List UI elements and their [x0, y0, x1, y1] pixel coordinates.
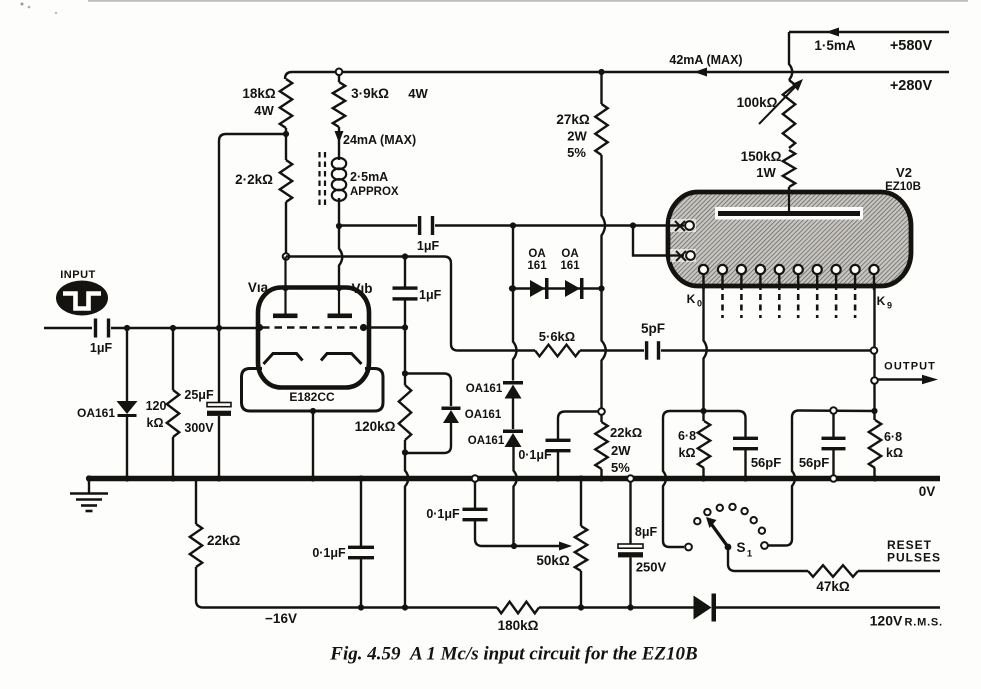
- wire bias to 0.1uF: [558, 412, 598, 441]
- guide electrode G2: [670, 249, 696, 262]
- wire between stack diodes: [512, 399, 514, 430]
- node 25uF branch: [216, 325, 222, 331]
- capacitor 56pF b: [832, 414, 834, 438]
- capacitor 1uF grid shunt: [404, 257, 406, 288]
- wire box cathode to 0V: [312, 411, 314, 478]
- wire cap to V2 guides (hops 27k line): [435, 224, 513, 226]
- svg-text:kΩ: kΩ: [147, 416, 164, 430]
- wire diode column upper (hops 5.6k row): [510, 285, 516, 291]
- resistor 50k potentiometer: [580, 479, 582, 527]
- node pair left: [509, 285, 515, 291]
- svg-text:22kΩ: 22kΩ: [207, 533, 241, 548]
- wire S1 to reset pulses: [728, 549, 808, 571]
- node 8uF bottom: [627, 604, 633, 610]
- svg-text:kΩ: kΩ: [886, 446, 903, 460]
- wire 120k2 to -16V line (hops rail): [405, 453, 408, 608]
- diode rectifier 120V: [694, 596, 712, 620]
- guide electrode G1: [670, 219, 696, 232]
- svg-text:250V: 250V: [636, 560, 667, 575]
- svg-text:1·5mA: 1·5mA: [814, 38, 856, 53]
- node diode branch: [124, 325, 130, 331]
- svg-text:OA161: OA161: [465, 409, 502, 421]
- wire wiper with arrow: [514, 545, 560, 547]
- wire 27k column lower to bias node (hops 5.6k row): [602, 289, 606, 409]
- capacitor 1uF input: [94, 319, 97, 338]
- capacitor 8uF electrolytic: [627, 475, 634, 482]
- tube V1 E182CC envelope: [258, 288, 369, 388]
- wire node to 1uF coupling cap: [339, 224, 417, 226]
- wire top +580V rail: [789, 31, 949, 33]
- svg-text:6·8: 6·8: [678, 429, 696, 443]
- diode OA161 input clamp: [126, 328, 128, 402]
- node 18k/2.2k junction: [283, 131, 289, 137]
- input pulse icon: [56, 281, 108, 316]
- wire 150k to V2 anode: [788, 187, 790, 194]
- svg-text:150kΩ: 150kΩ: [741, 149, 782, 164]
- wire feedback to grid line: [219, 134, 286, 328]
- svg-text:100kΩ: 100kΩ: [737, 95, 778, 110]
- arrow 24mA: [338, 127, 340, 142]
- svg-text:5·6kΩ: 5·6kΩ: [539, 329, 575, 344]
- node pair right: [598, 285, 604, 291]
- node box bottom: [310, 408, 316, 414]
- svg-text:56pF: 56pF: [751, 455, 781, 470]
- svg-text:0·1μF: 0·1μF: [518, 448, 552, 462]
- resistor 22k 2W: [600, 415, 602, 422]
- node 120k branch: [170, 325, 176, 331]
- svg-text:EZ10B: EZ10B: [885, 181, 921, 193]
- cathode V1a: [264, 354, 303, 365]
- rail junction dots: [124, 475, 130, 481]
- svg-text:Fig. 4.59 A 1 Mc/s input circ: Fig. 4.59 A 1 Mc/s input circuit for the…: [329, 644, 697, 665]
- svg-text:25μF: 25μF: [184, 388, 214, 402]
- cathode dashed leads: [723, 294, 856, 318]
- wire 22k to -16V line: [196, 567, 220, 608]
- capacitor 56pF a: [733, 437, 758, 440]
- node grid left: [256, 324, 263, 331]
- svg-text:56pF: 56pF: [799, 455, 829, 470]
- svg-text:0: 0: [697, 299, 702, 309]
- wire K9 lead: [873, 283, 875, 348]
- node wiper tee: [511, 543, 517, 549]
- svg-text:50kΩ: 50kΩ: [536, 553, 570, 568]
- resistor 18k: [280, 79, 292, 128]
- anode plate V1a: [284, 257, 286, 315]
- wire stack to rail (hops rail) continue to wiper: [514, 447, 517, 547]
- cathode pins K0-K9: [699, 265, 879, 290]
- switch S1 arm: [725, 544, 732, 551]
- wire K9 to node: [873, 384, 875, 412]
- svg-text:4W: 4W: [408, 86, 428, 101]
- capacitor 5pF: [645, 341, 648, 360]
- resistor 6.8k b: [873, 411, 875, 420]
- switch S1 contacts arc: [694, 518, 700, 524]
- wire +280V rail: [285, 72, 949, 79]
- svg-text:0·1μF: 0·1μF: [426, 507, 460, 521]
- svg-text:27kΩ: 27kΩ: [556, 112, 590, 127]
- capacitor 25uF electrolytic: [218, 328, 220, 403]
- ground symbol: [86, 475, 92, 481]
- svg-text:Vıa: Vıa: [248, 280, 269, 295]
- node 120k2 bottom: [402, 604, 408, 610]
- svg-text:1: 1: [747, 549, 753, 560]
- svg-text:120kΩ: 120kΩ: [355, 419, 396, 434]
- node branch return: [402, 449, 408, 455]
- wire 47k to edge: [858, 570, 940, 572]
- wire grid2 down: [404, 328, 406, 374]
- svg-text:S: S: [736, 540, 745, 555]
- svg-text:1μF: 1μF: [419, 288, 442, 302]
- svg-text:+280V: +280V: [890, 78, 933, 94]
- node 120k-2 top: [402, 370, 408, 376]
- svg-text:+580V: +580V: [890, 38, 933, 54]
- node grid right: [360, 324, 367, 331]
- svg-text:0·1μF: 0·1μF: [312, 546, 346, 560]
- svg-text:42mA (MAX): 42mA (MAX): [669, 53, 742, 67]
- wire 27k down to diode pair (hops 1uF wire): [602, 155, 606, 289]
- svg-text:4W: 4W: [254, 103, 274, 118]
- node 27k top: [598, 69, 604, 75]
- svg-text:8μF: 8μF: [635, 525, 658, 539]
- svg-text:2·5mA: 2·5mA: [350, 170, 388, 184]
- resistor 5.6k: [535, 345, 580, 357]
- svg-text:2W: 2W: [567, 129, 587, 144]
- svg-text:161: 161: [527, 260, 547, 272]
- svg-text:5%: 5%: [567, 145, 586, 160]
- node grid-2 junction: [364, 326, 405, 328]
- diode OA161 stack bottom: [505, 433, 522, 447]
- wire 5pF to K9: [661, 349, 870, 351]
- node 56pF b rail circle: [830, 475, 837, 482]
- svg-text:1W: 1W: [756, 165, 776, 180]
- svg-text:161: 161: [560, 260, 580, 272]
- node V1a envelope: [282, 285, 288, 291]
- resistor 27k: [600, 72, 602, 104]
- capacitor 0.1uF b: [472, 475, 479, 482]
- svg-text:K: K: [877, 294, 886, 308]
- node K9 bottom: [871, 408, 877, 414]
- capacitor 0.1uF bias: [546, 439, 571, 442]
- svg-text:K: K: [687, 292, 696, 306]
- svg-text:1μF: 1μF: [417, 239, 440, 253]
- arrow variable through 100k: [759, 85, 797, 124]
- svg-text:E182CC: E182CC: [289, 390, 335, 404]
- svg-text:5pF: 5pF: [641, 321, 665, 336]
- svg-text:9: 9: [887, 301, 892, 311]
- svg-text:Vıb: Vıb: [351, 281, 372, 296]
- wire V1a anode row: [286, 255, 405, 257]
- svg-text:OA: OA: [561, 248, 578, 260]
- svg-text:22kΩ: 22kΩ: [610, 425, 642, 440]
- svg-text:0V: 0V: [919, 484, 936, 499]
- node V1b envelope: [336, 285, 342, 291]
- svg-text:47kΩ: 47kΩ: [816, 579, 850, 594]
- wire input to grid: [111, 327, 258, 329]
- wire K9 loop left (hops rail to S1): [792, 411, 875, 471]
- arrow 1.5mA on +580V line: [826, 28, 839, 37]
- node K0 bottom: [700, 408, 706, 414]
- resistor 150k: [783, 150, 795, 187]
- resistor 2.2k: [285, 134, 287, 160]
- svg-text:6·8: 6·8: [884, 430, 902, 444]
- wire 5.6k row segments: [513, 349, 535, 351]
- capacitor 0.1uF a: [360, 479, 362, 548]
- svg-text:1μF: 1μF: [90, 341, 113, 355]
- inductor L1 choke: [332, 142, 346, 223]
- svg-text:24mA (MAX): 24mA (MAX): [343, 133, 416, 147]
- svg-text:APPROX: APPROX: [350, 186, 399, 198]
- anode bar V2: [715, 207, 863, 220]
- resistor 100k variable: [783, 80, 795, 148]
- svg-text:OA161: OA161: [468, 435, 505, 447]
- svg-text:OA: OA: [528, 248, 545, 260]
- envelope base box E182CC: [242, 369, 384, 412]
- wire diode to 120V RMS: [716, 606, 940, 608]
- resistor 6.8k a: [702, 411, 704, 421]
- wire input lead: [44, 327, 92, 329]
- wire K0 loop left to S1 (hops rail): [663, 411, 704, 470]
- svg-text:R.M.S.: R.M.S.: [905, 617, 943, 629]
- svg-text:V2: V2: [896, 165, 912, 180]
- anode plate V1b: [338, 288, 340, 314]
- svg-text:PULSES: PULSES: [887, 551, 941, 565]
- node S1 right contact: [761, 542, 768, 549]
- diode OA161 pair A: [530, 280, 545, 297]
- node S1 left contact: [685, 544, 692, 551]
- wire K0 loop right to 56pF: [704, 411, 746, 437]
- wire diode pair row: [512, 287, 602, 289]
- diode OA161 pair B: [565, 280, 580, 297]
- wire to lower guide: [633, 226, 668, 256]
- svg-text:kΩ: kΩ: [679, 446, 696, 460]
- diode OA161 stack top: [505, 385, 522, 399]
- arrow 42mA on +280V line: [694, 68, 707, 77]
- node 1uF shunt top: [402, 253, 408, 259]
- tube V2 EZ10B envelope: [668, 192, 911, 286]
- svg-text:−16V: −16V: [265, 611, 297, 626]
- node K9 row circle: [871, 347, 878, 354]
- svg-text:120V: 120V: [870, 613, 903, 629]
- wire K0 lead (hops 5pF row): [704, 283, 707, 411]
- svg-text:OA161: OA161: [466, 383, 503, 395]
- wire 180k to diode: [539, 606, 694, 608]
- diode OA161 shunt branch: [405, 374, 451, 407]
- node output circle: [871, 377, 878, 384]
- resistor 47k: [808, 565, 858, 577]
- resistor 120k grid: [172, 328, 174, 390]
- rail 0V: [87, 476, 940, 482]
- resistor 180k: [497, 602, 539, 614]
- node inductor output: [336, 223, 342, 229]
- svg-text:300V: 300V: [184, 421, 214, 435]
- scan artifact top edge: [88, 0, 968, 2]
- svg-text:18kΩ: 18kΩ: [242, 86, 276, 101]
- svg-text:120: 120: [146, 399, 167, 413]
- node bias circle: [598, 408, 605, 415]
- node V1a anode circle: [283, 253, 290, 260]
- svg-text:INPUT: INPUT: [60, 269, 96, 281]
- svg-text:2·2kΩ: 2·2kΩ: [235, 172, 273, 187]
- capacitor 1uF coupling (top): [418, 216, 421, 235]
- wire V1b anode lead (hops anode wire): [339, 226, 342, 288]
- svg-text:2W: 2W: [611, 443, 631, 458]
- node 50k bottom: [578, 604, 584, 610]
- wire -16V line: [220, 606, 497, 608]
- svg-text:5%: 5%: [611, 460, 630, 475]
- wire +580V feed drop to 100k (hops +280V line): [789, 32, 792, 80]
- node 56pF b circle: [830, 407, 837, 414]
- svg-text:3·9kΩ: 3·9kΩ: [351, 86, 389, 101]
- node 3.9k top circle: [336, 69, 343, 76]
- cathode V1b: [321, 354, 362, 365]
- svg-text:OA161: OA161: [77, 406, 115, 420]
- resistor 3.9k: [338, 75, 340, 82]
- node guide branch: [510, 222, 516, 228]
- wire output arrow: [878, 378, 924, 380]
- resistor 22k bias lower: [195, 479, 197, 525]
- svg-text:OUTPUT: OUTPUT: [884, 361, 936, 373]
- inductor core dashed: [318, 152, 320, 206]
- grid dashed line: [262, 326, 364, 329]
- node 0.1uF bottom: [358, 604, 364, 610]
- wire anode row corner down to 5.6k row: [405, 257, 513, 351]
- svg-text:180kΩ: 180kΩ: [498, 618, 539, 633]
- resistor 120k grid2: [399, 385, 411, 440]
